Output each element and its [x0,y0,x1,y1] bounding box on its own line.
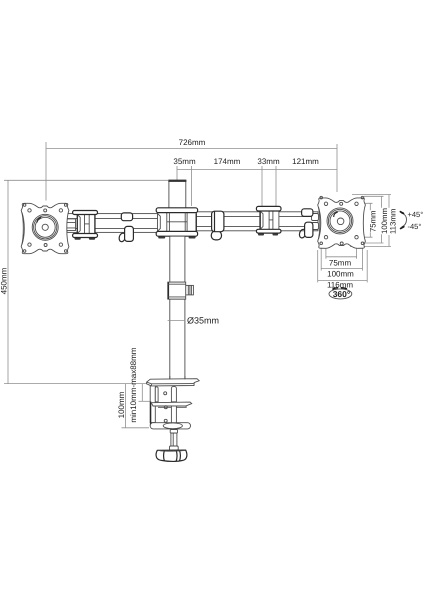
svg-text:+45°: +45° [408,210,424,219]
svg-text:75mm: 75mm [368,210,377,232]
svg-text:min10mm-max88mm: min10mm-max88mm [129,347,138,422]
svg-text:100mm: 100mm [117,391,126,418]
svg-text:33mm: 33mm [257,157,280,166]
svg-text:121mm: 121mm [292,157,319,166]
svg-text:100mm: 100mm [380,208,389,234]
svg-text:35mm: 35mm [173,157,196,166]
svg-text:726mm: 726mm [179,138,206,147]
svg-text:-45°: -45° [408,222,422,231]
svg-text:Ø35mm: Ø35mm [187,316,219,326]
svg-text:75mm: 75mm [329,259,352,268]
svg-text:360°: 360° [333,289,351,299]
svg-text:100mm: 100mm [327,270,354,279]
svg-text:450mm: 450mm [0,267,9,294]
svg-text:113mm: 113mm [389,209,398,234]
svg-text:174mm: 174mm [214,157,241,166]
